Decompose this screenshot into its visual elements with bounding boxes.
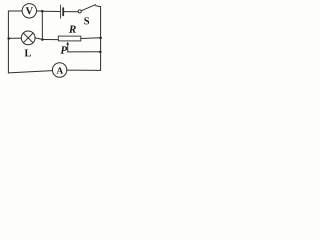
switch S blade xyxy=(81,5,95,11)
wire junction to battery xyxy=(42,10,59,12)
battery long plate xyxy=(60,5,62,18)
label P xyxy=(60,46,67,53)
wire left rail to lamp xyxy=(8,37,21,39)
wire left rail xyxy=(7,11,9,73)
node slider-rail junction dot xyxy=(99,51,102,54)
label V xyxy=(26,7,33,14)
switch S pivot circle xyxy=(78,10,81,13)
node R-rail junction dot xyxy=(99,37,102,40)
rheostat slider arrow P xyxy=(66,42,69,45)
lamp L cross stroke 2 xyxy=(23,33,33,43)
ammeter A circle xyxy=(52,63,66,77)
wire lamp to mid junction xyxy=(35,38,42,40)
battery short plate xyxy=(62,8,64,15)
label L xyxy=(25,49,31,56)
node lamp-left-rail junction dot xyxy=(7,37,10,40)
wire right rail xyxy=(100,7,102,71)
wire switch to right corner xyxy=(96,5,101,8)
wire R to right rail xyxy=(81,37,101,40)
wire bottom right xyxy=(67,69,101,71)
voltmeter V circle xyxy=(22,4,36,18)
node top junction dot xyxy=(41,10,44,13)
wire bottom left xyxy=(8,71,52,73)
lamp L cross stroke 1 xyxy=(23,33,33,43)
wire V to top junction xyxy=(37,10,43,12)
wire vertical branch from top junction xyxy=(41,11,43,39)
lamp L circle xyxy=(21,31,35,45)
label R xyxy=(69,25,76,32)
wire battery to switch xyxy=(64,11,78,13)
label S xyxy=(84,17,89,24)
wire slider P to right rail xyxy=(68,51,101,53)
resistor R box xyxy=(58,36,81,41)
label A xyxy=(57,67,64,73)
wire top-left horizontal xyxy=(8,10,22,12)
node mid junction dot xyxy=(41,38,44,41)
wire mid junction to resistor box xyxy=(42,39,58,41)
